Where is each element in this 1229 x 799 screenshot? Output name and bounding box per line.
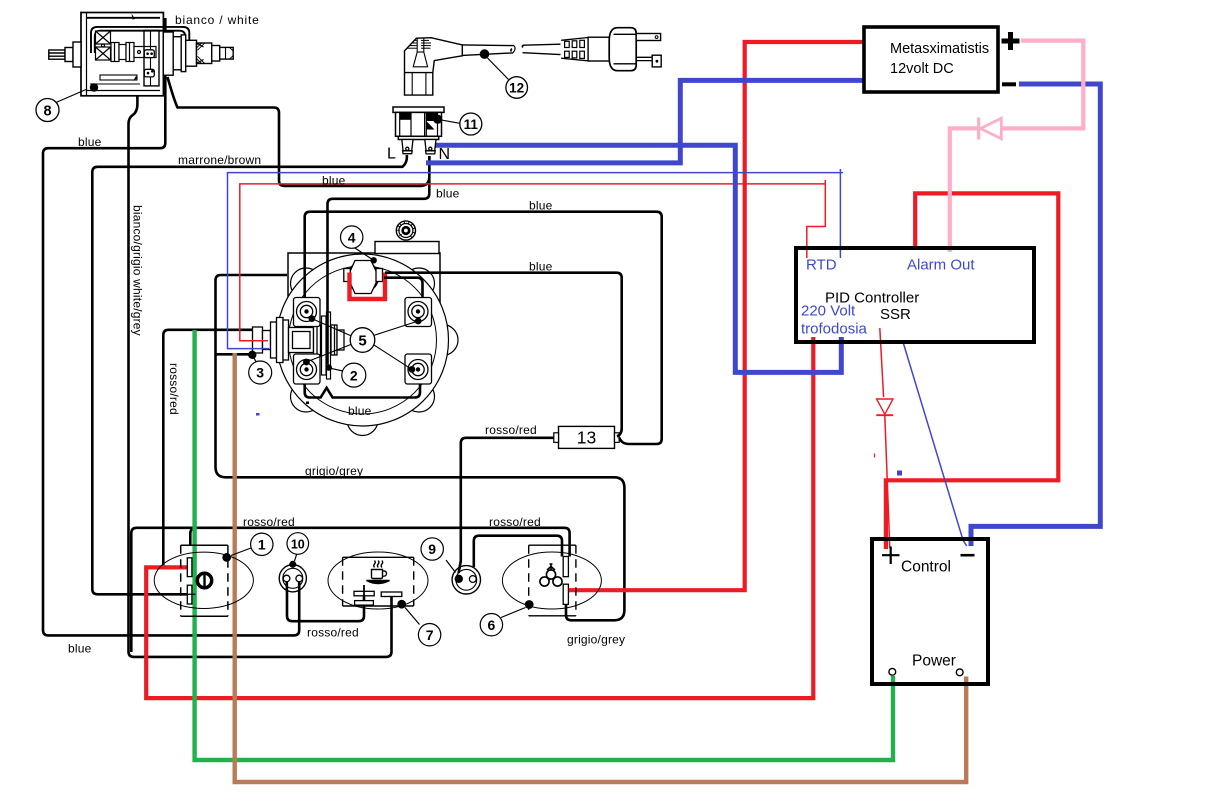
pump solenoid internals <box>96 31 157 62</box>
terminal post top-right <box>405 298 432 327</box>
diagonal wires posts to node 5 <box>306 319 418 370</box>
svg-text:12volt DC: 12volt DC <box>890 61 954 77</box>
label circle 2 <box>331 363 366 387</box>
fuse holder pins <box>402 140 436 154</box>
pump assembly at boiler center-left <box>253 318 345 363</box>
wire blue: post BL to post BR with hop <box>305 384 420 398</box>
svg-text:11: 11 <box>464 117 479 132</box>
thermal fuse 13 <box>554 426 619 448</box>
svg-text:blue: blue <box>436 187 460 201</box>
boiler scalloped body <box>267 254 458 436</box>
indicator lamp L10 <box>279 533 308 593</box>
mains plug <box>561 28 661 71</box>
svg-text:L: L <box>387 146 396 163</box>
svg-text:RTD: RTD <box>806 257 837 274</box>
wire: element hexagon to post TR <box>384 278 423 298</box>
indicator lamp L9 <box>421 538 480 594</box>
terminal post top-left <box>294 298 321 327</box>
wire rosso/red: pump connector to switch1 upper junction <box>163 330 253 566</box>
wire marrone: inlet L to switch1 lower terminal <box>92 155 407 594</box>
svg-text:blue: blue <box>348 404 372 418</box>
wire grigio/grey: connector3 to switch6 lower contact <box>216 275 625 620</box>
pump coil loop wire bianco <box>91 27 189 53</box>
svg-text:blue: blue <box>529 260 553 274</box>
transformer 12V DC box <box>864 27 1020 92</box>
wire green: pump wire junction to SSR power left <box>195 330 893 760</box>
svg-text:9: 9 <box>428 541 436 557</box>
inlet dot and label 11 <box>433 115 442 124</box>
wire stub to connector3 junction <box>216 353 250 356</box>
svg-text:4: 4 <box>348 229 356 245</box>
wire pink: diode to PID alarm <box>950 128 979 252</box>
wire blue: 12V box minus to SSR control minus <box>971 84 1100 546</box>
coffee switch S7 <box>328 552 441 646</box>
svg-text:N: N <box>439 146 451 163</box>
wire rosso distribution line <box>131 528 569 652</box>
svg-text:rosso/red: rosso/red <box>489 515 541 529</box>
vibration pump P8 <box>36 13 233 122</box>
svg-text:trofodosia: trofodosia <box>801 321 868 338</box>
wire blue: inlet N down to boiler node <box>328 156 430 365</box>
svg-text:3: 3 <box>256 365 264 381</box>
pump terminal housing <box>144 30 159 86</box>
wire red: PID alarm out to SSR control + <box>886 193 1058 549</box>
pump body junction dot and label 8 <box>90 83 98 91</box>
wire blue: inlet N to 12V box input <box>426 80 864 162</box>
svg-text:Control: Control <box>901 559 951 576</box>
svg-text:rosso/red: rosso/red <box>167 363 181 415</box>
svg-text:bianco / white: bianco / white <box>175 13 260 27</box>
bracket screw <box>396 221 415 240</box>
svg-text:2: 2 <box>350 367 358 383</box>
svg-text:12: 12 <box>509 81 524 96</box>
small arrow marks <box>132 14 136 20</box>
svg-text:grigio/grey: grigio/grey <box>305 464 363 478</box>
svg-text:grigio/grey: grigio/grey <box>567 633 625 647</box>
steam switch S6 <box>480 545 601 636</box>
svg-text:10: 10 <box>291 537 305 551</box>
stray blue mark <box>897 471 902 476</box>
wire stub: rosso line to switch1 top <box>190 528 195 546</box>
svg-text:blue: blue <box>68 642 92 656</box>
wire bianco/grigio: pump8 centre terminal to switch7 right contact <box>129 55 392 657</box>
svg-text:Metasximatistis: Metasximatistis <box>890 41 989 57</box>
red jumper wire on element <box>350 273 386 300</box>
wire red thin: RTD entry jog <box>807 180 826 258</box>
diode D pink <box>979 118 1002 140</box>
wire red: 12V box to switch6 middle contact <box>567 42 865 590</box>
svg-text:marrone/brown: marrone/brown <box>178 153 261 167</box>
pump spade terminals <box>144 50 154 77</box>
svg-text:5: 5 <box>358 333 366 350</box>
svg-text:blue: blue <box>529 199 553 213</box>
wire: fuse13 left down to lamp9 left <box>459 438 554 573</box>
wire blue thin: PID SSR to control minus <box>903 342 967 546</box>
svg-text:7: 7 <box>426 627 434 643</box>
label circle 3 and junction dot <box>248 351 272 384</box>
svg-text:rosso/red: rosso/red <box>307 626 359 640</box>
svg-text:SSR: SSR <box>880 306 911 323</box>
junction dots on posts <box>303 257 422 373</box>
svg-text:6: 6 <box>488 617 496 633</box>
wire blue: pump8 right terminal to lamp10 right <box>43 18 299 635</box>
power switch S1 <box>154 533 273 616</box>
power cord 12 angled connector <box>405 38 561 99</box>
wire red thin: PID SSR out through diode to control + <box>880 328 884 397</box>
svg-text:Alarm Out: Alarm Out <box>907 257 975 274</box>
wire blue: pump8 lower terminal to inlet N <box>168 77 430 186</box>
wire brown: connector3 junction to SSR power right <box>235 353 967 782</box>
svg-text:13: 13 <box>577 428 596 448</box>
wire: switch7 left contact to lamp10 left <box>287 593 364 622</box>
wire: element hexagon to fuse13 right <box>385 273 622 437</box>
svg-text:8: 8 <box>43 104 51 120</box>
wire: lamp9 right to switch6 upper contact <box>474 536 562 567</box>
terminal post bottom-left <box>294 354 321 384</box>
SSR control/power box <box>872 539 988 684</box>
pump body <box>81 13 163 96</box>
boiler mounting bracket <box>288 242 440 364</box>
wire pink: 12V plus down to diode <box>1002 41 1083 129</box>
wire blue: post TL up, across to fuse13 right <box>305 212 662 444</box>
stray red tick <box>874 454 876 458</box>
label circle 4 <box>341 226 373 260</box>
svg-text:blue: blue <box>78 135 102 149</box>
steam knob icon <box>540 564 562 586</box>
node 5 circle <box>350 328 375 353</box>
terminal post bottom-right <box>405 354 432 384</box>
wire blue: inlet N to PID 220V input <box>430 145 841 372</box>
PID controller box <box>796 248 1034 342</box>
svg-text:rosso/red: rosso/red <box>243 515 295 529</box>
svg-text:rosso/red: rosso/red <box>485 423 537 437</box>
svg-text:bianco/grigio white/grey: bianco/grigio white/grey <box>131 205 145 336</box>
power inlet 11 <box>393 107 482 154</box>
wire red: PID 220V to switch1 upper terminal <box>146 337 813 698</box>
element flange plates <box>322 312 331 379</box>
cord dot and label 12 <box>480 49 490 59</box>
cup icon <box>367 561 390 584</box>
wire red thin: connector3 to PID RTD <box>240 184 826 341</box>
diode D red <box>877 399 893 414</box>
wire blue thin: RTD entry <box>839 169 841 258</box>
pump outlet stack right <box>163 32 233 75</box>
stray blue tick <box>256 413 260 416</box>
cord cable with break <box>462 45 514 56</box>
svg-text:blue: blue <box>322 174 346 188</box>
svg-text:220 Volt: 220 Volt <box>801 303 856 320</box>
wire blue thin: connector3 to PID RTD <box>228 173 844 349</box>
pump inlet shaft left <box>49 42 81 67</box>
svg-text:Power: Power <box>912 653 956 670</box>
heating element hexagon U4 <box>344 261 383 294</box>
svg-text:1: 1 <box>258 537 266 553</box>
